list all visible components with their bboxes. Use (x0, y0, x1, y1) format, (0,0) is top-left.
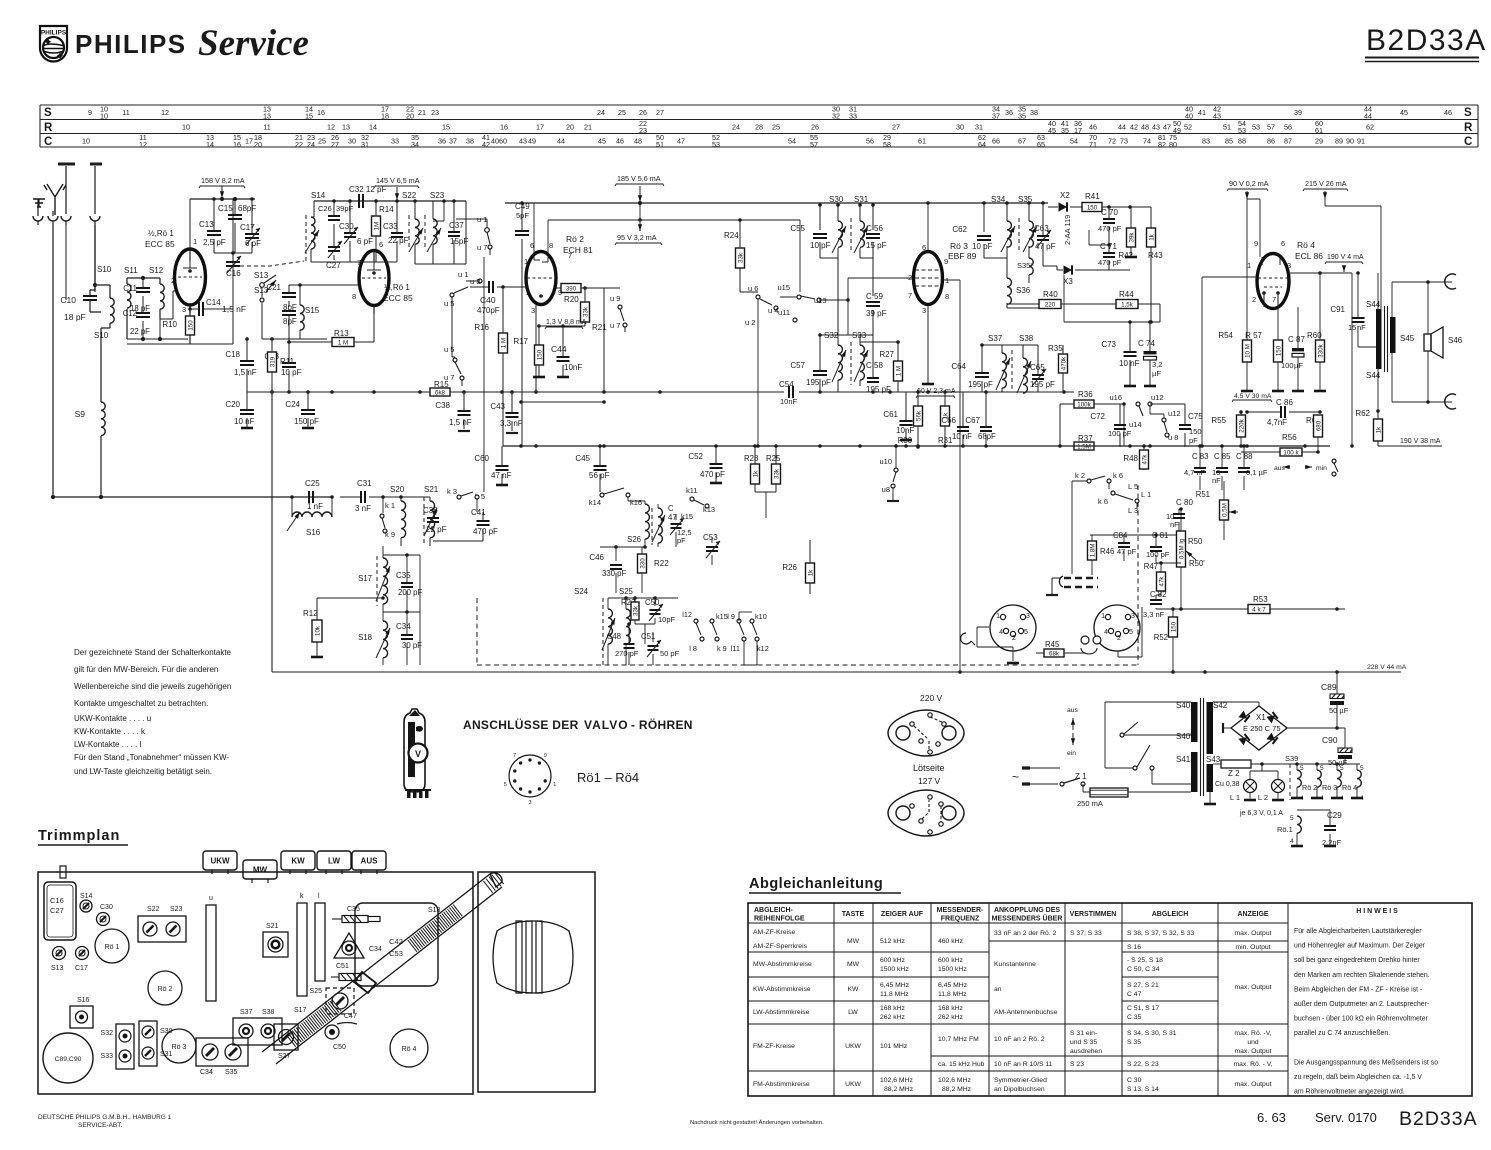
svg-text:65: 65 (1037, 140, 1045, 149)
svg-text:u 5: u 5 (444, 345, 454, 354)
grid wire to Rö1b (289, 284, 359, 286)
svg-text:49: 49 (528, 137, 536, 146)
svg-text:1 M: 1 M (895, 366, 902, 376)
dashed AM box bottom (477, 664, 1138, 666)
svg-text:Serv. 0170: Serv. 0170 (1315, 1110, 1377, 1125)
wire plate to transformer (1289, 272, 1352, 274)
svg-text:220: 220 (1045, 301, 1056, 308)
svg-text:V: V (415, 749, 421, 759)
svg-text:R28: R28 (744, 454, 758, 463)
svg-text:MW: MW (847, 938, 860, 945)
svg-text:10 nF: 10 nF (1119, 359, 1140, 368)
svg-text:64: 64 (978, 140, 986, 149)
svg-text:Rö 3: Rö 3 (172, 1044, 187, 1051)
svg-text:330 pF: 330 pF (602, 569, 627, 578)
svg-text:11: 11 (122, 108, 129, 117)
svg-text:C45: C45 (575, 454, 590, 463)
svg-text:45: 45 (1048, 126, 1056, 135)
svg-text:11,8 MHz: 11,8 MHz (880, 991, 909, 998)
svg-text:Für den Stand „Tonabnehmer“ mü: Für den Stand „Tonabnehmer“ müssen KW- (74, 753, 229, 762)
svg-text:C 56: C 56 (866, 224, 883, 233)
svg-text:11,8 MHz: 11,8 MHz (938, 991, 967, 998)
svg-text:Rö 2: Rö 2 (158, 986, 173, 993)
svg-text:S 27, S 21: S 27, S 21 (1127, 982, 1159, 989)
svg-text:390: 390 (566, 285, 577, 292)
svg-text:6k8: 6k8 (435, 389, 446, 396)
svg-text:S46: S46 (1448, 336, 1463, 345)
svg-text:Rö 4: Rö 4 (1297, 240, 1315, 250)
svg-text:1M: 1M (373, 222, 380, 231)
svg-text:UKW: UKW (845, 1081, 861, 1088)
svg-text:Service: Service (198, 23, 309, 64)
svg-text:35: 35 (1061, 126, 1069, 135)
svg-text:max. Output: max. Output (1234, 930, 1271, 937)
svg-text:R50': R50' (1189, 559, 1205, 568)
svg-text:4: 4 (1360, 795, 1364, 802)
svg-text:C 85: C 85 (1214, 452, 1231, 461)
svg-text:9: 9 (88, 108, 92, 117)
svg-text:soll bei ganz eingedrehtem: soll bei ganz eingedrehtem Drehko hinter (1294, 957, 1420, 964)
svg-text:REIHENFOLGE: REIHENFOLGE (754, 916, 805, 923)
svg-text:27: 27 (656, 108, 664, 117)
svg-text:460 kHz: 460 kHz (938, 938, 964, 945)
svg-text:an Dipolbuchsen: an Dipolbuchsen (994, 1086, 1045, 1093)
svg-text:Z 2: Z 2 (1228, 769, 1240, 778)
pentode section rail 185V (505, 202, 1048, 204)
resistor R46 (1088, 541, 1097, 560)
svg-text:S21: S21 (266, 923, 279, 930)
svg-text:u 7: u 7 (477, 243, 487, 252)
antenna symbol (44, 184, 66, 215)
svg-text:S: S (1464, 107, 1472, 119)
svg-text:Symmetrier-Glied: Symmetrier-Glied (994, 1077, 1047, 1084)
svg-text:Rö1 – Rö4: Rö1 – Rö4 (577, 770, 639, 785)
svg-text:R62: R62 (1355, 409, 1370, 418)
bar C numbers (82, 133, 1365, 149)
svg-text:B2D33A: B2D33A (1399, 1108, 1478, 1130)
svg-text:5: 5 (1340, 765, 1344, 772)
bar S numbers (88, 105, 1452, 121)
svg-text:max. Output: max. Output (1234, 984, 1271, 991)
svg-text:R48: R48 (1123, 454, 1138, 463)
svg-text:gilt für den MW-Bereich. Für d: gilt für den MW-Bereich. Für die anderen (74, 665, 218, 674)
wire pin1 to C83 column (1202, 277, 1257, 446)
svg-text:26: 26 (639, 108, 647, 117)
u column down (483, 257, 485, 492)
svg-text:½,Rö 1: ½,Rö 1 (384, 283, 410, 292)
svg-text:C72: C72 (1090, 412, 1105, 421)
svg-text:u 7: u 7 (610, 321, 620, 330)
svg-text:S 38, S 37, S 32, S 33: S 38, S 37, S 32, S 33 (1127, 930, 1194, 937)
svg-text:36: 36 (438, 137, 446, 146)
svg-text:UKW: UKW (845, 1043, 861, 1050)
svg-text:C33: C33 (383, 222, 398, 231)
svg-text:15: 15 (305, 112, 313, 121)
svg-text:6: 6 (379, 240, 383, 249)
svg-text:1,5k: 1,5k (1121, 301, 1134, 308)
component index bars S R C (40, 105, 1478, 147)
svg-text:C90: C90 (1322, 735, 1338, 745)
svg-text:12: 12 (139, 140, 147, 149)
svg-text:C53: C53 (389, 949, 403, 958)
svg-text:680: 680 (1315, 420, 1322, 431)
svg-text:150 pF: 150 pF (294, 417, 319, 426)
svg-text:S30: S30 (829, 195, 844, 204)
wire to C10 (94, 225, 96, 292)
svg-text:Trimmplan: Trimmplan (38, 828, 120, 844)
svg-text:32: 32 (832, 112, 840, 121)
svg-text:nF: nF (1170, 520, 1179, 529)
svg-text:C31: C31 (357, 479, 372, 488)
svg-text:150: 150 (187, 320, 194, 331)
svg-text:C34: C34 (200, 1069, 213, 1076)
wire screen (1351, 273, 1353, 446)
svg-text:4: 4 (1290, 838, 1294, 845)
svg-text:S13: S13 (254, 271, 269, 280)
svg-text:Der gezeichnete Stand der Scha: Der gezeichnete Stand der Schalterkontak… (74, 648, 232, 657)
resistor R43 (1147, 228, 1156, 247)
svg-text:68pF: 68pF (978, 432, 996, 441)
svg-text:C 82: C 82 (1150, 590, 1166, 599)
svg-text:74: 74 (1143, 137, 1151, 146)
svg-text:6 pF: 6 pF (357, 237, 373, 246)
svg-text:46: 46 (1444, 108, 1452, 117)
svg-text:C35: C35 (347, 906, 360, 913)
svg-text:47 pF: 47 pF (1117, 547, 1137, 556)
svg-text:10 M: 10 M (1244, 344, 1251, 358)
diode X3 (1064, 265, 1073, 274)
svg-text:S10: S10 (97, 265, 112, 274)
svg-text:S15: S15 (305, 306, 320, 315)
svg-text:Rö 2: Rö 2 (566, 234, 584, 244)
svg-text:C40: C40 (480, 295, 496, 305)
svg-text:10 pF: 10 pF (281, 368, 302, 377)
svg-text:66: 66 (992, 137, 1000, 146)
svg-text:158 V 8,2 mA: 158 V 8,2 mA (201, 176, 245, 185)
svg-text:C 70: C 70 (1101, 208, 1118, 217)
svg-text:60: 60 (499, 137, 507, 146)
svg-text:14: 14 (369, 123, 377, 132)
svg-text:Cu 0,38: Cu 0,38 (1215, 781, 1240, 788)
svg-text:S37: S37 (240, 1009, 253, 1016)
svg-text:u11: u11 (778, 308, 790, 317)
svg-text:10nF: 10nF (780, 397, 798, 406)
svg-text:330: 330 (639, 558, 646, 569)
socket A jack (961, 633, 971, 644)
svg-text:168 kHz: 168 kHz (880, 1005, 906, 1012)
svg-text:3: 3 (528, 800, 531, 806)
svg-text:43: 43 (519, 137, 527, 146)
speaker S46 (1424, 334, 1431, 351)
svg-text:11: 11 (263, 123, 270, 132)
svg-text:MW: MW (253, 866, 268, 875)
svg-text:C53: C53 (703, 533, 718, 542)
svg-text:5: 5 (1320, 765, 1324, 772)
svg-text:10: 10 (100, 112, 108, 121)
svg-text:18 pF: 18 pF (64, 312, 86, 322)
svg-text:1,5 nF: 1,5 nF (449, 418, 472, 427)
svg-text:C89,C90: C89,C90 (55, 1056, 82, 1063)
aerial sockets (33, 216, 43, 221)
svg-text:S45: S45 (1400, 334, 1415, 343)
feed 158V (199, 186, 245, 189)
svg-text:61: 61 (1315, 126, 1323, 135)
svg-text:7: 7 (908, 291, 912, 300)
svg-text:C 87: C 87 (1288, 335, 1305, 344)
svg-text:k16: k16 (630, 498, 642, 507)
svg-text:C 81: C 81 (1152, 531, 1168, 540)
svg-text:0,1 µF: 0,1 µF (1246, 468, 1268, 477)
svg-text:u15: u15 (777, 283, 790, 292)
svg-text:22: 22 (295, 140, 303, 149)
svg-text:46: 46 (1089, 123, 1097, 132)
svg-text:88,2 MHz: 88,2 MHz (942, 1086, 972, 1093)
svg-text:Rö 4: Rö 4 (402, 1046, 417, 1053)
svg-text:UKW: UKW (210, 857, 230, 866)
coil S27 variable (651, 508, 653, 545)
svg-text:VERSTIMMEN: VERSTIMMEN (1070, 911, 1117, 918)
pickup connector (1052, 578, 1060, 590)
svg-text:22 pF: 22 pF (388, 236, 409, 245)
svg-text:68pF: 68pF (238, 204, 256, 213)
svg-text:Kontakte umgeschaltet zu betra: Kontakte umgeschaltet zu betrachten. (74, 699, 208, 708)
svg-text:Für alle Abgleicharbeiten L: Für alle Abgleicharbeiten Lautstärkeregl… (1294, 928, 1422, 935)
tube socket B (1094, 605, 1140, 651)
svg-text:L 1: L 1 (1141, 490, 1151, 499)
svg-text:262 kHz: 262 kHz (938, 1014, 964, 1021)
svg-text:Nachdruck nicht gestattet! Änd: Nachdruck nicht gestattet! Änderungen vo… (690, 1119, 824, 1126)
svg-text:195 pF: 195 pF (866, 385, 891, 394)
svg-text:ECC 85: ECC 85 (145, 239, 175, 249)
svg-text:6,45 MHz: 6,45 MHz (938, 982, 968, 989)
svg-text:1,5M: 1,5M (1077, 443, 1091, 450)
svg-text:5: 5 (504, 782, 507, 788)
svg-text:S16: S16 (306, 528, 321, 537)
resistor R42 (1127, 228, 1136, 247)
svg-text:S 34, S 30, S 31: S 34, S 30, S 31 (1127, 1030, 1177, 1037)
svg-text:S22: S22 (402, 191, 417, 200)
svg-text:ZEIGER AUF: ZEIGER AUF (881, 911, 924, 918)
svg-text:UKW-Kontakte . . . .: UKW-Kontakte . . . . u (74, 714, 151, 723)
wire k5 to C45 (477, 511, 483, 513)
svg-text:aus: aus (1067, 707, 1079, 714)
svg-text:47k: 47k (1158, 576, 1165, 587)
svg-text:EBF 89: EBF 89 (948, 251, 977, 261)
svg-text:470 pF: 470 pF (473, 527, 498, 536)
svg-text:S25: S25 (310, 988, 323, 995)
svg-text:MW: MW (847, 961, 860, 968)
resistor R10 (186, 316, 195, 335)
svg-text:S18: S18 (358, 633, 372, 642)
svg-text:R27: R27 (879, 350, 894, 359)
svg-text:ca. 15 kHz Hub: ca. 15 kHz Hub (938, 1061, 985, 1068)
keyboard frame left (271, 392, 273, 672)
svg-text:1 nF: 1 nF (307, 502, 323, 511)
svg-text:470 pF: 470 pF (700, 470, 725, 479)
svg-text:X1: X1 (1256, 713, 1266, 722)
svg-text:3: 3 (1131, 613, 1135, 620)
svg-text:S36: S36 (1016, 286, 1031, 295)
svg-text:86: 86 (1267, 137, 1275, 146)
tape head symbol (1081, 636, 1089, 644)
svg-text:33k: 33k (737, 252, 744, 263)
svg-text:16: 16 (233, 140, 241, 149)
svg-text:LW-Abstimmkreise: LW-Abstimmkreise (753, 1009, 810, 1016)
svg-text:17: 17 (245, 137, 253, 146)
svg-text:Die Ausgangsspannung des Me: Die Ausgangsspannung des Meßsenders ist … (1294, 1059, 1438, 1066)
svg-text:S12: S12 (149, 266, 164, 275)
svg-text:1: 1 (996, 613, 1000, 620)
bracket 190V 38mA (1398, 445, 1442, 447)
svg-text:470k: 470k (1060, 356, 1067, 370)
svg-text:33k: 33k (632, 605, 639, 616)
svg-text:S38: S38 (1019, 334, 1034, 343)
svg-text:9: 9 (1254, 239, 1258, 248)
svg-text:S35: S35 (225, 1069, 238, 1076)
svg-text:C66: C66 (941, 416, 956, 425)
svg-text:195 pF: 195 pF (806, 378, 831, 387)
svg-text:ANKOPPLUNG DES: ANKOPPLUNG DES (994, 907, 1060, 914)
bottom bus y672 (272, 671, 1341, 673)
svg-text:ABGLEICH: ABGLEICH (1152, 911, 1189, 918)
svg-text:1k: 1k (1375, 426, 1382, 433)
svg-text:C32 12 pF: C32 12 pF (349, 185, 386, 194)
svg-text:l 8: l 8 (689, 644, 697, 653)
svg-text:22 pF: 22 pF (426, 525, 447, 534)
svg-text:S31: S31 (854, 195, 869, 204)
svg-text:195 pF: 195 pF (968, 380, 993, 389)
svg-text:1: 1 (553, 782, 556, 788)
svg-text:C16: C16 (226, 269, 241, 278)
svg-text:R20: R20 (564, 295, 579, 304)
svg-text:l12: l12 (682, 610, 692, 619)
svg-text:S44: S44 (1366, 371, 1381, 380)
svg-text:µF: µF (1294, 361, 1303, 370)
svg-text:MESSENDER-: MESSENDER- (937, 907, 984, 914)
svg-text:53: 53 (1252, 123, 1260, 132)
svg-text:46: 46 (616, 137, 624, 146)
svg-text:R17: R17 (513, 337, 528, 346)
svg-text:max. Output: max. Output (1234, 1081, 1271, 1088)
svg-text:270 pF: 270 pF (615, 649, 639, 658)
svg-text:220 V: 220 V (920, 693, 943, 703)
svg-text:145 V 6,5 mA: 145 V 6,5 mA (376, 176, 420, 185)
svg-text:47: 47 (668, 513, 677, 522)
svg-text:FM-ZF-Kreise: FM-ZF-Kreise (753, 1043, 795, 1050)
svg-text:und LW-Taste gleichzeitig betä: und LW-Taste gleichzeitig betätigt sein. (74, 767, 212, 776)
svg-text:R26: R26 (782, 563, 797, 572)
svg-text:S40': S40' (1176, 732, 1192, 741)
svg-text:R14: R14 (379, 205, 394, 214)
svg-text:l11: l11 (731, 644, 740, 653)
svg-text:X2: X2 (1060, 191, 1070, 200)
svg-text:6: 6 (530, 241, 534, 250)
bridge rectifier X1 (1213, 702, 1259, 706)
wire block bottom (127, 343, 188, 345)
svg-text:512 kHz: 512 kHz (880, 938, 906, 945)
svg-text:62: 62 (1366, 123, 1374, 132)
svg-text:am Röhrenvoltmeter angezeigt: am Röhrenvoltmeter angezeigt wird. (1294, 1089, 1405, 1096)
svg-text:1: 1 (193, 237, 197, 246)
svg-text:an: an (994, 986, 1002, 993)
top rail 145V (314, 200, 466, 202)
tone switch (1332, 459, 1336, 463)
svg-text:u 9: u 9 (610, 294, 620, 303)
capacitor C54 (784, 386, 799, 399)
svg-text:8: 8 (352, 292, 356, 301)
svg-text:22 pF: 22 pF (130, 327, 150, 336)
svg-text:101 MHz: 101 MHz (880, 1043, 908, 1050)
svg-text:S34: S34 (991, 195, 1006, 204)
svg-text:C29: C29 (1327, 811, 1342, 820)
svg-text:3,2: 3,2 (1152, 360, 1162, 369)
svg-text:3,3 nF: 3,3 nF (500, 419, 523, 428)
svg-text:5: 5 (1024, 629, 1028, 636)
svg-text:27: 27 (331, 140, 339, 149)
bracket 4,5V (1232, 400, 1272, 403)
svg-text:ausdrehen: ausdrehen (1070, 1048, 1102, 1055)
pentode Rö3 EBF89 (914, 252, 943, 305)
svg-text:R13: R13 (334, 329, 349, 338)
svg-text:aus: aus (1274, 465, 1286, 472)
svg-text:R44: R44 (1119, 290, 1134, 299)
S30 S31 block (139, 1021, 157, 1066)
svg-text:72: 72 (1108, 137, 1116, 146)
svg-text:10 nF an R 10/S 11: 10 nF an R 10/S 11 (994, 1061, 1053, 1068)
svg-text:u16: u16 (1109, 393, 1122, 402)
VALVO tube pictorial (404, 709, 425, 792)
svg-text:52: 52 (1184, 123, 1192, 132)
svg-text:100k: 100k (1077, 401, 1091, 408)
svg-text:100 k: 100 k (1283, 449, 1299, 456)
svg-text:k15: k15 (716, 612, 728, 621)
shaft collar (354, 972, 376, 993)
svg-text:150: 150 (536, 349, 543, 360)
svg-text:5: 5 (1129, 629, 1133, 636)
svg-text:57: 57 (1267, 123, 1275, 132)
svg-text:Lötseite: Lötseite (913, 763, 945, 773)
svg-text:R41: R41 (1085, 192, 1100, 201)
svg-text:L 5: L 5 (1128, 482, 1138, 491)
svg-text:90 V 0,2 mA: 90 V 0,2 mA (1229, 179, 1269, 188)
IF can C16 C27 (44, 882, 76, 940)
svg-text:36: 36 (1005, 108, 1013, 117)
svg-text:S40: S40 (1176, 701, 1191, 710)
svg-text:12: 12 (327, 123, 335, 132)
block S22 S23 (138, 916, 186, 942)
svg-text:u13: u13 (814, 296, 827, 305)
svg-text:34: 34 (411, 140, 419, 149)
svg-text:k15: k15 (681, 512, 693, 521)
table grid (748, 903, 1472, 1096)
svg-text:S37: S37 (988, 334, 1003, 343)
svg-text:ABGLEICH-: ABGLEICH- (754, 907, 794, 914)
svg-text:7: 7 (513, 753, 516, 759)
svg-text:45: 45 (598, 137, 606, 146)
svg-text:R50: R50 (1188, 537, 1203, 546)
svg-text:S10: S10 (94, 331, 109, 340)
svg-text:k 2: k 2 (1075, 471, 1085, 480)
svg-text:56k: 56k (915, 410, 922, 421)
svg-text:1: 1 (524, 257, 528, 266)
heptode Rö2 ECH81 (526, 252, 556, 305)
svg-text:91: 91 (1357, 137, 1365, 146)
svg-text:C47: C47 (344, 1013, 357, 1020)
svg-text:17: 17 (1074, 126, 1082, 135)
svg-text:C: C (1464, 136, 1472, 148)
svg-text:max. Rö. -V,: max. Rö. -V, (1234, 1030, 1271, 1037)
svg-text:8: 8 (945, 292, 949, 301)
